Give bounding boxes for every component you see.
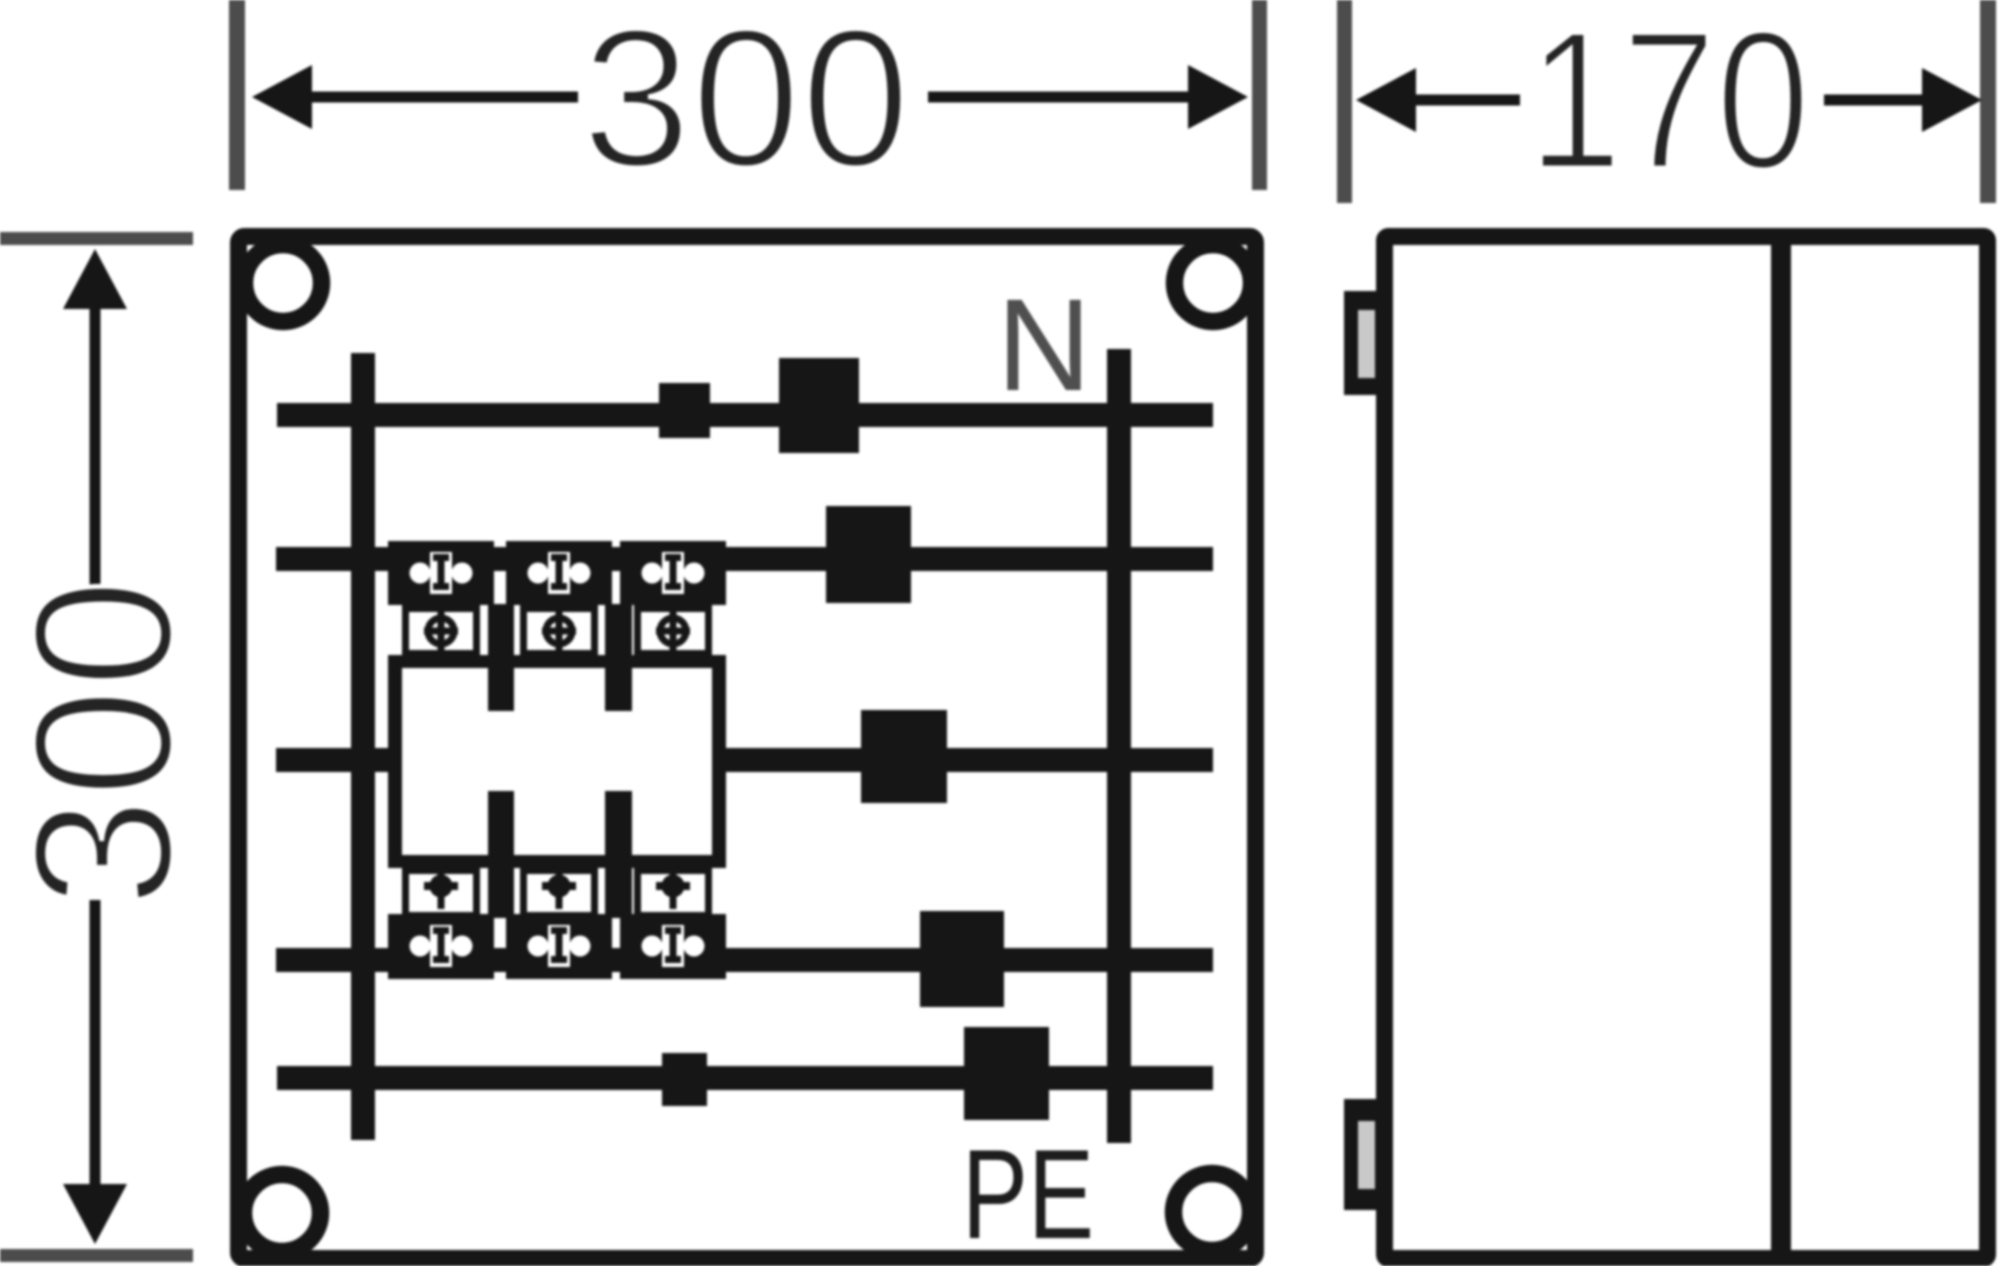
vertical busbar right [1107, 349, 1131, 1143]
dimension line 300 top, left shaft [306, 92, 578, 103]
module separator bottom 2 [605, 791, 632, 918]
dimension line 300 top, right shaft [928, 92, 1192, 103]
screw neck top module 2 [524, 609, 595, 654]
hinge bottom [1344, 1099, 1384, 1210]
terminal small on line 1 [659, 383, 710, 438]
dimension line 300 left, upper shaft [90, 303, 101, 585]
horizontal conductor N (line 1) [277, 403, 1213, 427]
module separator top 2 [605, 604, 632, 711]
dimension line 300 top, right arrowhead [1188, 65, 1248, 129]
terminal large on line 5 [964, 1027, 1049, 1120]
dimension line 170, left shaft [1410, 95, 1520, 106]
terminal box bottom module 1 [388, 914, 494, 979]
screw neck bottom module 3 [638, 871, 709, 916]
fuse switch body white background [388, 655, 726, 868]
svg-text:N: N [997, 271, 1092, 418]
mounting hole bottom-right [1174, 1174, 1251, 1251]
dimension line 300 left, lower shaft [90, 900, 101, 1188]
mounting hole top-left [245, 245, 322, 322]
horizontal conductor line 3 [276, 748, 1213, 772]
horizontal conductor PE (line 5) [277, 1066, 1213, 1090]
svg-text:170: 170 [1528, 0, 1810, 210]
dimension line 300 left, down arrowhead [63, 1184, 127, 1244]
terminal boxes of fuse switch [388, 541, 726, 979]
terminal box top module 1 [388, 541, 494, 605]
horizontal conductor line 4 [276, 948, 1213, 972]
enclosure front view outline [239, 237, 1256, 1259]
mounting hole bottom-left [244, 1175, 321, 1252]
screw neck bottom module 1 [406, 871, 477, 916]
terminal box bottom module 3 [620, 914, 726, 979]
extension line right of top 300 dimension [1252, 0, 1267, 190]
dimension line 170, right arrowhead [1922, 68, 1982, 132]
label PE [962, 1124, 1094, 1266]
mounting hole top-right [1175, 245, 1252, 322]
side view cover split line [1771, 236, 1791, 1259]
extension line top of left 300 dimension [0, 232, 193, 245]
dimension line 170, left arrowhead [1356, 68, 1416, 132]
horizontal conductor line 2 [276, 547, 1213, 571]
dimension line 300 left, up arrowhead [63, 249, 127, 309]
dimension line 170, right shaft [1824, 95, 1928, 106]
fuse switch body right edge [712, 655, 726, 868]
terminal large on line 1 [779, 358, 859, 453]
dimension label 300 left (rotated) [0, 579, 213, 908]
vertical busbar left [351, 353, 375, 1140]
terminal large on line 2 [826, 506, 911, 603]
extension line right of 170 dimension [1980, 0, 1996, 203]
screw neck top module 3 [638, 609, 709, 654]
side view outline [1385, 237, 1988, 1259]
extension line left of 170 dimension [1337, 0, 1352, 203]
dimension line 300 top, left arrowhead [252, 65, 312, 129]
hinge top [1344, 291, 1384, 395]
top screw necks and screws [406, 607, 709, 916]
terminal box bottom module 2 [506, 914, 612, 979]
extension line bottom of left 300 dimension [0, 1249, 193, 1262]
svg-text:300: 300 [582, 0, 911, 208]
terminal box top module 3 [620, 541, 726, 605]
module separator bottom 1 [488, 791, 514, 918]
svg-text:PE: PE [962, 1124, 1094, 1266]
terminal box top module 2 [506, 541, 612, 605]
enclosure side view [1344, 236, 1988, 1259]
svg-text:300: 300 [0, 579, 213, 908]
screw neck bottom module 2 [524, 871, 595, 916]
terminal large on line 4 [920, 911, 1004, 1007]
fuse switch body top edge [388, 655, 726, 668]
screw neck top module 1 [406, 609, 477, 654]
module separator top 1 [488, 604, 514, 711]
fuse switch body left edge [388, 655, 402, 868]
terminal large on line 3 [861, 710, 947, 803]
terminal small on line 5 [662, 1053, 707, 1106]
extension line left of top 300 dimension [229, 0, 245, 190]
fuse switch body bottom edge [388, 855, 726, 868]
